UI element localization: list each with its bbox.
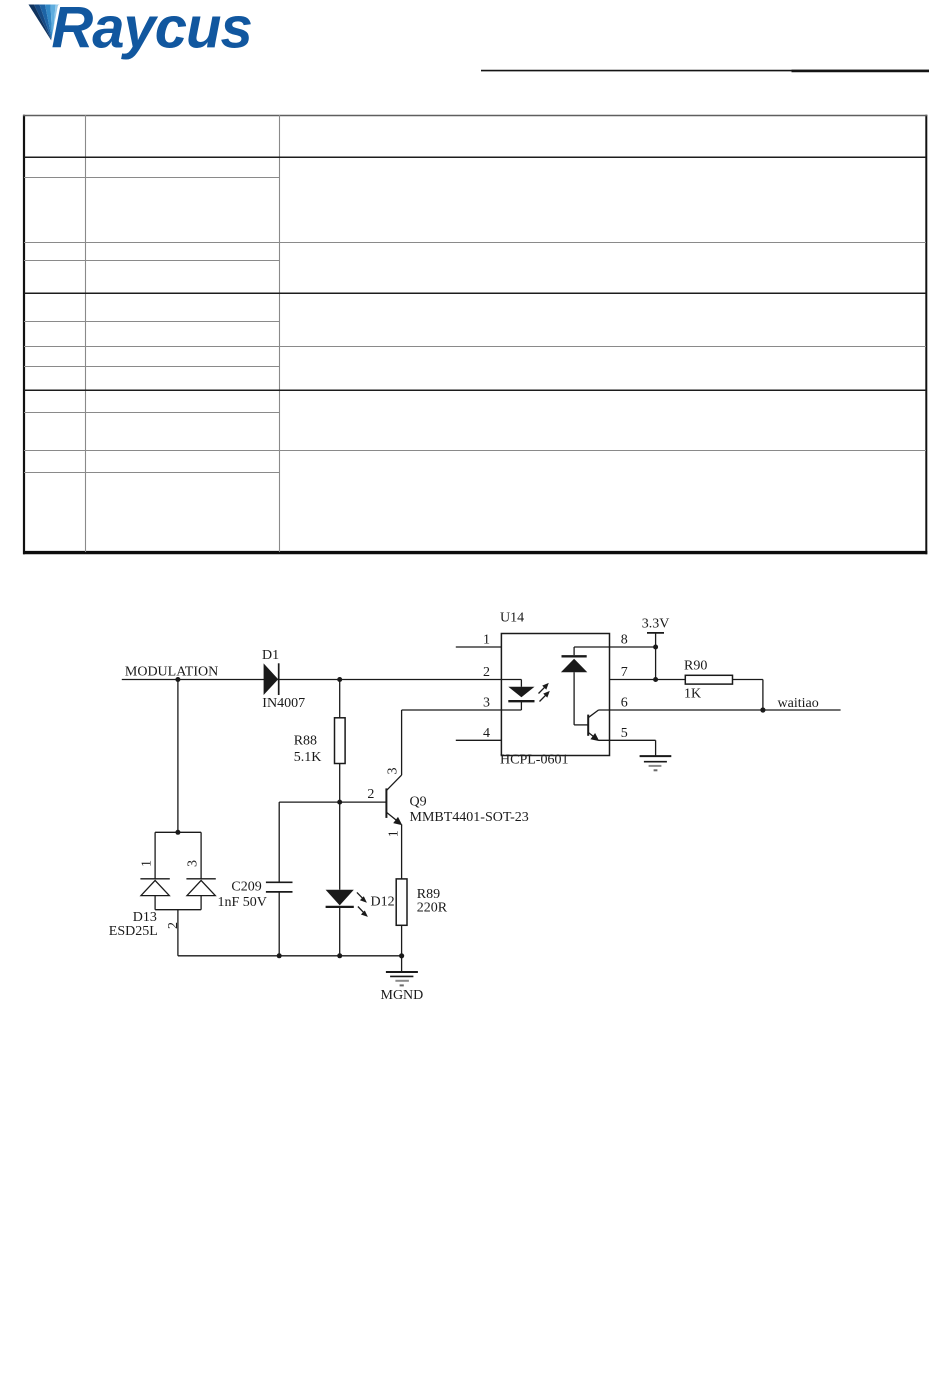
pin number 1 of D13 <box>140 860 155 867</box>
svg-text:2: 2 <box>166 922 181 929</box>
node pin7 junction <box>653 677 658 682</box>
value label IN4007 <box>262 696 305 711</box>
wire U14 pin 4 stub <box>456 739 502 741</box>
pin number 3 of U14 <box>483 696 490 711</box>
capacitor C209 <box>266 882 293 892</box>
svg-text:8: 8 <box>621 633 628 648</box>
wire R90 to waitiao node <box>733 680 763 711</box>
pin number 4 of U14 <box>483 726 490 741</box>
wire C209 bottom lead <box>278 892 280 956</box>
transistor inside U14 <box>588 710 599 741</box>
svg-text:3: 3 <box>386 768 401 775</box>
svg-text:R88: R88 <box>294 734 317 749</box>
svg-text:ESD25L: ESD25L <box>109 924 158 939</box>
pin number 2 of D13 <box>166 922 181 929</box>
Raycus logo V-fan mark <box>29 5 67 43</box>
wire R88 top lead <box>339 680 341 718</box>
svg-text:1: 1 <box>483 633 490 648</box>
label C209 value 1nF 50V <box>218 880 267 910</box>
svg-text:220R: 220R <box>417 901 448 916</box>
wire MODULATION input line to U14 pin 2 <box>122 679 502 681</box>
row lines full width <box>24 156 926 158</box>
svg-text:2: 2 <box>483 665 490 680</box>
wire Q9 emitter to R89 <box>401 824 403 879</box>
svg-text:HCPL-0601: HCPL-0601 <box>500 753 568 768</box>
svg-text:D1: D1 <box>262 648 279 663</box>
svg-text:1: 1 <box>386 830 401 837</box>
ground at U14 pin 5 <box>640 756 672 770</box>
label D1 <box>262 648 279 663</box>
svg-text:1nF 50V: 1nF 50V <box>218 895 267 910</box>
diode D13 element 1 <box>140 879 169 896</box>
label R88 value 5.1K <box>294 734 322 766</box>
label 3.3V <box>642 616 670 631</box>
svg-text:D12: D12 <box>371 894 395 909</box>
pin number 1 of U14 <box>483 633 490 648</box>
wire U14 pin 8 to 3.3V node <box>574 646 656 648</box>
pin number 3 of D13 <box>186 860 201 867</box>
label MGND <box>381 988 424 1003</box>
net label MODULATION <box>125 665 218 680</box>
svg-text:MMBT4401-SOT-23: MMBT4401-SOT-23 <box>410 810 529 825</box>
label D12 <box>371 894 395 909</box>
column dividers <box>85 115 87 552</box>
dual diode D13 bracket and leads <box>155 832 201 956</box>
node waitiao junction <box>760 707 765 712</box>
node MGND junction <box>399 953 404 958</box>
LED inside U14 <box>501 680 549 711</box>
pin number 1 of Q9 <box>386 830 401 837</box>
wire C209 top lead <box>278 802 280 882</box>
resistor R88 <box>335 718 346 764</box>
svg-text:waitiao: waitiao <box>778 696 819 711</box>
net label waitiao <box>778 696 819 711</box>
label U14 <box>500 611 524 626</box>
pin number 6 of U14 <box>621 696 628 711</box>
resistor R90 <box>685 675 732 684</box>
pin number 2 of Q9 <box>367 787 374 802</box>
row lines columns 1-2 only <box>24 177 279 179</box>
outer borders <box>23 115 25 554</box>
wire R89 bottom lead <box>401 925 403 956</box>
label Q9 MMBT4401-SOT-23 <box>410 794 529 825</box>
svg-text:4: 4 <box>483 726 490 741</box>
pin number 2 of U14 <box>483 665 490 680</box>
svg-text:5.1K: 5.1K <box>294 750 322 765</box>
photodiode inside U14 <box>561 647 588 725</box>
ground MGND <box>386 956 418 986</box>
svg-text:Q9: Q9 <box>410 794 427 809</box>
svg-text:U14: U14 <box>500 611 524 626</box>
node D13 top junction <box>175 830 180 835</box>
svg-text:IN4007: IN4007 <box>262 696 305 711</box>
svg-text:7: 7 <box>621 665 628 680</box>
wire U14 pin 5 to ground <box>599 740 656 756</box>
header rule <box>481 70 929 72</box>
svg-text:D13: D13 <box>133 910 157 925</box>
svg-text:6: 6 <box>621 696 628 711</box>
wire R88 bottom lead to base node <box>339 764 341 803</box>
node D12 bottom junction <box>337 953 342 958</box>
label R90 value 1K <box>684 659 707 702</box>
wire R88 node down to D12 <box>339 802 341 890</box>
Raycus logo wordmark <box>51 0 251 60</box>
node pin8 3.3V junction <box>653 645 658 650</box>
node Q9 base junction <box>337 800 342 805</box>
label R89 value 220R <box>417 887 448 916</box>
wire D12 cathode to bottom rail <box>339 907 341 956</box>
svg-text:Raycus: Raycus <box>51 0 251 60</box>
wire U14 pin 1 stub <box>456 646 502 648</box>
wire base node line C209 to Q9 base <box>279 801 386 803</box>
empty table <box>23 115 927 554</box>
node MODULATION junction <box>175 677 180 682</box>
node R88 top junction <box>337 677 342 682</box>
wire U14 pin 7 to R90 <box>610 679 686 681</box>
wire from MODULATION node down to D13 <box>177 680 179 833</box>
svg-text:5: 5 <box>621 726 628 741</box>
svg-text:MODULATION: MODULATION <box>125 665 218 680</box>
svg-text:2: 2 <box>367 787 374 802</box>
op-amp U14 optocoupler box <box>501 634 609 756</box>
pin number 7 of U14 <box>621 665 628 680</box>
wire U14 pin 6 waitiao line <box>599 709 841 711</box>
transistor Q9 <box>386 775 402 825</box>
svg-text:3: 3 <box>483 696 490 711</box>
label D13 value ESD25L <box>109 910 158 939</box>
power 3.3V symbol <box>647 633 664 680</box>
svg-text:R90: R90 <box>684 659 707 674</box>
pin number 3 of Q9 <box>386 768 401 775</box>
svg-text:1K: 1K <box>684 687 701 702</box>
node C209 bottom junction <box>277 953 282 958</box>
resistor R89 <box>396 879 407 925</box>
svg-text:3.3V: 3.3V <box>642 616 670 631</box>
diode D13 element 2 <box>186 879 215 896</box>
wire Q9 collector up to U14 pin 3 <box>402 710 502 775</box>
wire bottom ground rail <box>178 955 402 957</box>
pin number 8 of U14 <box>621 633 628 648</box>
value label HCPL-0601 <box>500 753 568 768</box>
svg-text:1: 1 <box>140 860 155 867</box>
svg-text:MGND: MGND <box>381 988 424 1003</box>
diode D1 <box>264 663 279 695</box>
LED D12 <box>326 890 368 917</box>
pin number 5 of U14 <box>621 726 628 741</box>
svg-text:C209: C209 <box>231 880 261 895</box>
svg-text:3: 3 <box>186 860 201 867</box>
